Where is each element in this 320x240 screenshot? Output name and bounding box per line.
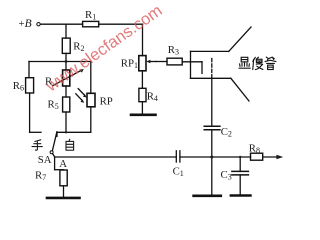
svg-text:SA: SA <box>38 154 52 166</box>
svg-text:RP: RP <box>100 96 113 108</box>
svg-text:A: A <box>59 158 67 170</box>
svg-text:+B: +B <box>19 18 32 30</box>
